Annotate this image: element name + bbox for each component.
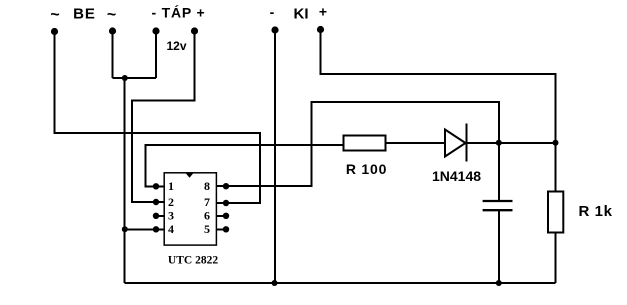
svg-text:BE: BE bbox=[73, 6, 96, 23]
wire: terminal minus straight down to ground rail bbox=[274, 30, 276, 283]
pin 6 dot bbox=[223, 213, 229, 219]
wire: capacitor bottom plate down to ground rail bbox=[498, 211, 500, 284]
svg-text:12v: 12v bbox=[166, 39, 186, 53]
svg-text:2: 2 bbox=[168, 195, 174, 209]
pin 7 dot bbox=[223, 200, 229, 206]
svg-text:~: ~ bbox=[107, 7, 116, 24]
wire: junction vertical down to ground rail bbox=[124, 78, 126, 283]
junction: node B (KI+ / R2) bbox=[553, 140, 559, 146]
junction: capacitor wire on ground rail bbox=[496, 280, 502, 286]
svg-text:- TÁP +: - TÁP + bbox=[152, 5, 206, 21]
terminal dot ~1 bbox=[51, 28, 58, 35]
resistor R1 100 ohm body bbox=[344, 136, 386, 151]
wire: pin 8 right, up, right, down to node A bbox=[217, 102, 499, 186]
svg-text:1N4148: 1N4148 bbox=[432, 168, 481, 184]
wire: terminal TAP+ down, left, down to pin 2 (12v net) bbox=[132, 31, 195, 202]
junction: minus wire on ground rail bbox=[272, 280, 278, 286]
svg-text:6: 6 bbox=[204, 209, 210, 223]
pin 4 dot bbox=[153, 226, 159, 232]
svg-text:4: 4 bbox=[168, 222, 174, 236]
wire: terminal KI+ down, right, down to node B bbox=[321, 30, 556, 143]
wire: ground rail bottom bbox=[125, 282, 556, 284]
pin 1 dot bbox=[153, 183, 159, 189]
pin 2 dot bbox=[153, 199, 159, 205]
diode D1 1N4148 triangle bbox=[445, 130, 466, 157]
svg-text:R 100: R 100 bbox=[346, 161, 387, 177]
svg-text:8: 8 bbox=[204, 179, 210, 193]
wire: diode cathode to node A to node B bbox=[467, 142, 556, 144]
IC U1 UTC2822 body bbox=[164, 173, 216, 245]
wire: pin 6 stub bbox=[217, 215, 227, 217]
svg-text:1: 1 bbox=[168, 179, 174, 193]
junction: BE~/TAP- node bbox=[122, 75, 128, 81]
junction: node A (diode cathode / C1 / pin8) bbox=[496, 140, 502, 146]
terminal dot minus bbox=[271, 26, 278, 33]
svg-text:R 1k: R 1k bbox=[578, 203, 612, 220]
diode D1 cathode bar bbox=[466, 124, 468, 162]
svg-text:3: 3 bbox=[168, 209, 174, 223]
wire: terminal TAP- stem down bbox=[155, 31, 157, 78]
capacitor C1 bottom plate bbox=[483, 209, 513, 211]
svg-text:7: 7 bbox=[204, 195, 210, 209]
pin 3 dot bbox=[153, 213, 159, 219]
svg-text:~: ~ bbox=[50, 7, 59, 24]
svg-text:5: 5 bbox=[204, 222, 210, 236]
terminal dot TAP- bbox=[152, 27, 159, 34]
IC U1 pin-1 notch mark bbox=[186, 173, 194, 178]
pin 5 dot bbox=[223, 226, 229, 232]
wire: R2 bottom down to ground rail bbox=[555, 232, 557, 283]
wire: bridge BE~2 to TAP- at y78 bbox=[113, 77, 157, 79]
terminal dot TAP+ bbox=[191, 27, 198, 34]
junction: pin 4 to ground vertical bbox=[122, 226, 128, 232]
wire: R1 right terminal to diode anode bbox=[386, 142, 446, 144]
terminal dot BE~2 bbox=[109, 27, 116, 34]
wire: node A down to capacitor top plate bbox=[498, 143, 500, 200]
wire: pin 3 stub bbox=[156, 215, 165, 217]
wire: terminal ~1 down, right, down to pin 7 (net AC1) bbox=[55, 31, 261, 203]
svg-text:-: - bbox=[270, 4, 275, 20]
svg-text:KI: KI bbox=[294, 6, 309, 23]
wire: node B down to R2 top bbox=[555, 143, 557, 192]
svg-text:UTC 2822: UTC 2822 bbox=[168, 255, 218, 267]
capacitor C1 top plate bbox=[483, 200, 513, 202]
wire: pin 4 left to junction vertical bbox=[125, 228, 165, 230]
svg-text:+: + bbox=[319, 4, 327, 20]
wire: pin 5 stub bbox=[217, 228, 227, 230]
pin 8 dot bbox=[223, 183, 229, 189]
wire: pin 1 left, up, right to R1 bbox=[146, 145, 344, 186]
terminal dot KI+ bbox=[317, 26, 324, 33]
wire: terminal BE~2 stem down bbox=[112, 31, 114, 78]
resistor R2 1k body bbox=[548, 192, 563, 233]
